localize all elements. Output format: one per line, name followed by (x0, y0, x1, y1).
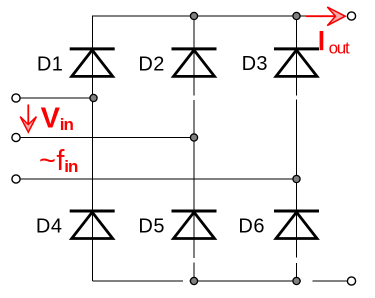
diode D5 (172, 211, 217, 239)
wire right column (phase C / D3-D6 leg) (296, 15, 298, 281)
svg-text:~f: ~f (39, 145, 65, 177)
label fin (input frequency) (39, 145, 78, 177)
arrow Iout (output current direction) (306, 7, 345, 26)
junction dot top rail / D3 column (293, 12, 300, 19)
diode D1 (70, 49, 115, 77)
wire top rail (positive output bus) (93, 15, 309, 17)
diode D6 (274, 211, 319, 239)
svg-text:D1: D1 (37, 53, 63, 75)
svg-text:D3: D3 (242, 53, 268, 75)
terminal input phase 1 (12, 94, 20, 102)
svg-text:in: in (64, 157, 78, 176)
wire input phase 2 (20, 137, 194, 139)
svg-text:out: out (329, 39, 350, 58)
wire left column (phase A / D1-D4 leg) (92, 15, 94, 281)
junction dot top rail / D2 column (190, 12, 197, 19)
wire input phase 3 (20, 178, 296, 180)
svg-text:D2: D2 (138, 53, 164, 75)
label Vin (41, 103, 74, 135)
wire middle column (phase B / D2-D5 leg) (193, 15, 195, 281)
terminal output negative (347, 277, 355, 285)
junction dot bottom rail / D6 column (293, 277, 300, 284)
junction dot bottom rail / D5 column (190, 277, 197, 284)
label Iout (320, 31, 350, 58)
arrow Vin (input voltage direction, pointing down) (20, 105, 36, 133)
diode D2 (172, 49, 217, 77)
svg-text:in: in (60, 115, 74, 134)
terminal input phase 3 (12, 175, 20, 183)
svg-text:D5: D5 (138, 216, 165, 238)
junction dot phase 3 / D3 column (293, 175, 300, 182)
junction dot phase 1 / D1 column (90, 94, 97, 101)
wire bottom rail (negative output bus) (93, 280, 348, 282)
diode D3 (274, 49, 319, 77)
diode D4 (70, 211, 115, 239)
terminal output positive (347, 12, 355, 20)
junction dot phase 2 / D2 column (190, 134, 197, 141)
terminal input phase 2 (12, 133, 20, 141)
wire input phase 1 (20, 97, 93, 99)
svg-text:D6: D6 (238, 216, 265, 238)
svg-text:V: V (41, 103, 61, 135)
svg-text:D4: D4 (36, 216, 63, 238)
